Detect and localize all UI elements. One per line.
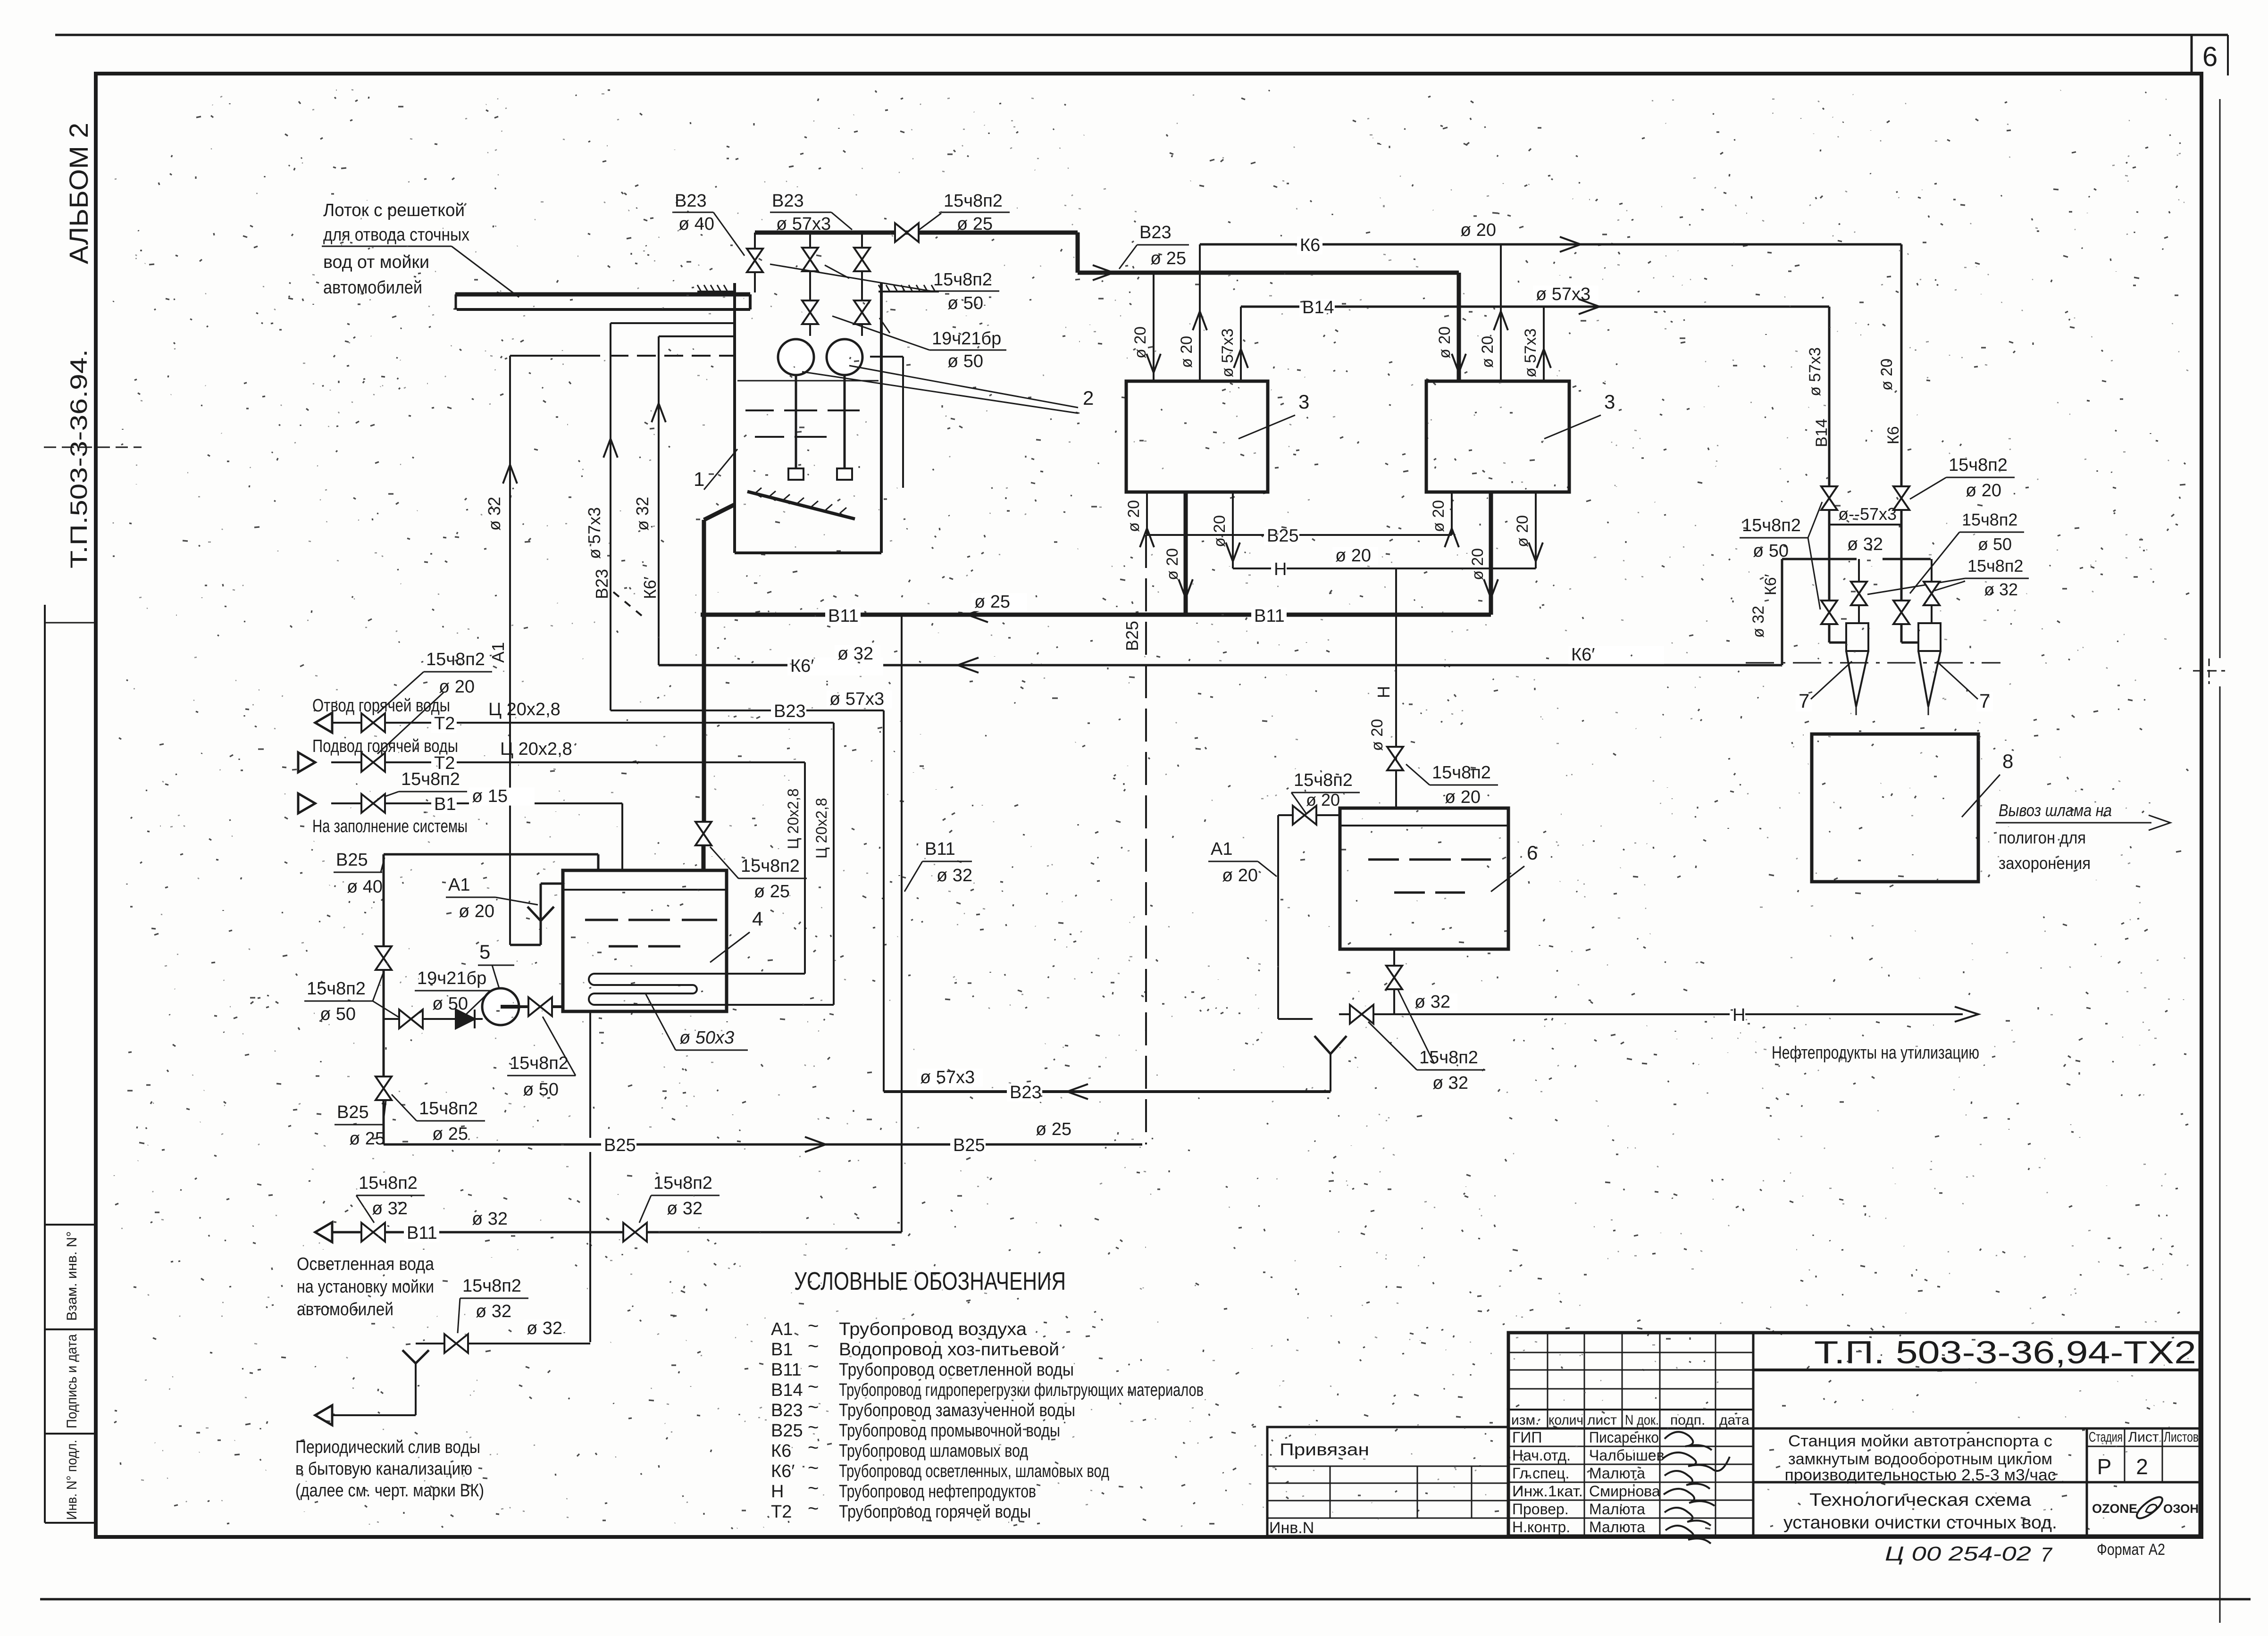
- svg-text:7: 7: [1799, 690, 1809, 712]
- svg-text:ø 32: ø 32: [837, 644, 873, 664]
- svg-text:В25: В25: [1267, 526, 1299, 546]
- svg-text:ø 50: ø 50: [1978, 534, 2012, 554]
- svg-text:Н: Н: [771, 1482, 784, 1502]
- valve on T2 return: [361, 713, 385, 732]
- svg-text:ø 25: ø 25: [1036, 1119, 1071, 1139]
- arrow K6' riser: [652, 403, 666, 422]
- label B11 bottom: [404, 1225, 439, 1243]
- svg-text:УСЛОВНЫЕ ОБОЗНАЧЕНИЯ: УСЛОВНЫЕ ОБОЗНАЧЕНИЯ: [794, 1267, 1066, 1295]
- svg-text:~: ~: [808, 1478, 819, 1499]
- svg-text:В23: В23: [1010, 1083, 1042, 1102]
- upper valve mixer left: [802, 248, 818, 271]
- svg-text:Водопровод хоз-питьевой: Водопровод хоз-питьевой: [839, 1340, 1059, 1360]
- mixer 2 right shaft: [844, 375, 846, 468]
- pipe B23 return: [884, 1090, 1331, 1093]
- check valve pump: [456, 1010, 475, 1028]
- pipe H drop to tank 6: [1395, 568, 1397, 808]
- branch right lower: [1931, 606, 1933, 623]
- svg-text:4: 4: [752, 908, 763, 930]
- svg-text:ø 32: ø 32: [372, 1199, 408, 1219]
- svg-text:Инж.1кат.: Инж.1кат.: [1512, 1483, 1583, 1500]
- svg-text:3: 3: [1604, 391, 1615, 413]
- svg-text:ø 32: ø 32: [1984, 580, 2018, 599]
- svg-text:В23: В23: [774, 701, 806, 721]
- svg-text:автомобилей: автомобилей: [323, 278, 422, 298]
- svg-text:~: ~: [808, 1316, 819, 1336]
- svg-text:К6′: К6′: [640, 576, 660, 599]
- svg-text:В11: В11: [771, 1360, 802, 1380]
- svg-text:А1: А1: [1211, 839, 1232, 859]
- svg-text:ø 25: ø 25: [432, 1124, 468, 1144]
- svg-text:Периодический слив воды: Периодический слив воды: [295, 1437, 480, 1457]
- svg-text:ø 32: ø 32: [1749, 606, 1767, 638]
- svg-text:Взам. инв. N°: Взам. инв. N°: [64, 1231, 80, 1321]
- pipe B23 vertical: [883, 710, 885, 1092]
- pipe B25 under filters: [1147, 534, 1452, 536]
- valve on B1: [361, 794, 385, 813]
- filter1 H stub: [1232, 492, 1234, 568]
- arrow on B23 trunk: [1093, 265, 1113, 280]
- pipe Ц riser supply: [804, 762, 806, 974]
- svg-text:ø 57х3: ø 57х3: [1219, 328, 1237, 377]
- label H under filters: [1271, 561, 1287, 579]
- svg-text:Ц 20х2,8: Ц 20х2,8: [500, 739, 572, 759]
- svg-text:15ч8п2: 15ч8п2: [510, 1053, 569, 1073]
- pipe K6: [1200, 243, 1901, 246]
- pipe K6' right riser: [1781, 559, 1783, 643]
- svg-text:Н: Н: [1732, 1005, 1745, 1025]
- filter1 riser K6: [1199, 244, 1201, 380]
- pipe B14 into cyclone: [1828, 625, 1831, 643]
- lower valve 19ч21бр left: [802, 300, 818, 324]
- B23 drop to filter 2: [1457, 273, 1461, 380]
- title block outline: [1508, 1333, 2200, 1536]
- svg-text:Формат А2: Формат А2: [2097, 1541, 2165, 1559]
- arrow B23 riser: [603, 439, 618, 458]
- filter1 B11 stub: [1184, 492, 1188, 615]
- label K6: [1297, 237, 1322, 255]
- filter2 B11 stub: [1489, 492, 1493, 615]
- funnel sewer: [402, 1350, 416, 1363]
- svg-text:Стадия: Стадия: [2089, 1429, 2123, 1445]
- svg-text:ø 32: ø 32: [1847, 534, 1883, 554]
- page right edge line: [2219, 99, 2221, 658]
- svg-text:6: 6: [2202, 42, 2218, 72]
- svg-text:ø 20: ø 20: [1211, 515, 1229, 547]
- svg-text:N док.: N док.: [1625, 1412, 1659, 1428]
- svg-text:Лоток с решеткой: Лоток с решеткой: [323, 200, 465, 220]
- tank 4 heating coil: [589, 974, 805, 985]
- svg-text:К6: К6: [771, 1441, 791, 1461]
- svg-text:ø 50: ø 50: [947, 351, 983, 371]
- pipe B25 drop dashed: [1145, 535, 1147, 1144]
- svg-text:Нефтепродукты на утилизацию: Нефтепродукты на утилизацию: [1772, 1043, 1979, 1063]
- label B25 bottom left: [601, 1137, 636, 1155]
- svg-text:А1: А1: [448, 875, 470, 895]
- svg-text:19ч21бр: 19ч21бр: [417, 968, 486, 988]
- left margin strip: [44, 605, 46, 1523]
- tank 4 top band: [563, 889, 727, 891]
- tank 4: [563, 870, 727, 1011]
- label d32 drain: [524, 1320, 569, 1338]
- svg-text:Ц 00 254-02: Ц 00 254-02: [1885, 1543, 2031, 1565]
- pipe B14 lower: [1828, 510, 1831, 643]
- svg-text:~: ~: [808, 1437, 819, 1458]
- pipe B1 fill: [298, 793, 315, 813]
- revision grid: [1508, 1352, 1753, 1353]
- svg-text:ø 20: ø 20: [1878, 359, 1896, 391]
- svg-text:В23: В23: [772, 191, 804, 211]
- pipe H under filters: [1233, 568, 1536, 569]
- svg-text:ø 20: ø 20: [1430, 500, 1448, 532]
- svg-text:Писаренко: Писаренко: [1589, 1429, 1659, 1446]
- pipe K6 drop: [1900, 244, 1903, 486]
- svg-text:ГИП: ГИП: [1512, 1429, 1542, 1446]
- valve K6 drop: [1893, 486, 1909, 510]
- svg-text:Т.П. 503-3-36,94-ТХ2: Т.П. 503-3-36,94-ТХ2: [1814, 1335, 2196, 1370]
- valve oil funnel: [1350, 1005, 1373, 1024]
- svg-text:Р: Р: [2097, 1454, 2112, 1479]
- svg-text:19ч21бр: 19ч21бр: [932, 329, 1001, 349]
- pipe K6' main: [659, 664, 1782, 667]
- hydrocyclone 7 left: [1846, 623, 1868, 651]
- svg-text:Т.П.503-3-36.94.: Т.П.503-3-36.94.: [66, 349, 92, 568]
- manifold branch left: [1858, 559, 1860, 581]
- sheet top border line: [55, 34, 2228, 36]
- label d57x3 on jog: [827, 691, 892, 709]
- pipe into tank 4 top: [702, 846, 706, 870]
- svg-text:ø 20: ø 20: [1445, 787, 1481, 807]
- label T2 supply: [431, 755, 457, 773]
- pipe B1 drop to tank 4: [621, 803, 623, 870]
- arrow B25 bottom: [805, 1137, 826, 1152]
- svg-text:ø 57х3: ø 57х3: [920, 1068, 975, 1087]
- valve pump discharge: [528, 997, 552, 1016]
- svg-text:дата: дата: [1719, 1412, 1749, 1428]
- svg-text:15ч8п2: 15ч8п2: [1949, 455, 2008, 475]
- svg-text:А1: А1: [488, 642, 508, 663]
- tank 6: [1340, 808, 1508, 949]
- svg-text:Гл.спец.: Гл.спец.: [1512, 1465, 1569, 1482]
- svg-text:Чалбышев: Чалбышев: [1589, 1447, 1665, 1464]
- svg-text:2: 2: [2136, 1454, 2148, 1479]
- svg-text:В14: В14: [1813, 419, 1831, 448]
- svg-text:ø 32: ø 32: [1414, 992, 1450, 1012]
- mixer 2 right motor: [827, 339, 862, 375]
- mixer 2 left shaft: [795, 375, 797, 468]
- valve B11 bottom right: [623, 1223, 647, 1242]
- svg-text:Н: Н: [1274, 559, 1287, 579]
- svg-text:15ч8п2: 15ч8п2: [462, 1276, 521, 1296]
- label d25 on B11: [971, 593, 1027, 611]
- svg-text:К6: К6: [1884, 426, 1902, 444]
- valve K6 cyclone: [1893, 601, 1909, 624]
- svg-text:Малюта: Малюта: [1589, 1519, 1645, 1536]
- svg-text:установки очистки сточных вод.: установки очистки сточных вод.: [1783, 1513, 2057, 1533]
- svg-text:Трубопровод осветленных, шламо: Трубопровод осветленных, шламовых вод: [839, 1461, 1109, 1481]
- svg-text:ø 25: ø 25: [957, 214, 993, 234]
- svg-text:ø 50: ø 50: [320, 1004, 356, 1024]
- svg-text:изм.: изм.: [1511, 1412, 1539, 1428]
- pipe A1 to tank 6: [1278, 814, 1340, 816]
- svg-text:Н: Н: [1374, 686, 1393, 698]
- fold mark left lower: [44, 622, 94, 624]
- valve 15ч8п2 feed tank 4: [695, 822, 711, 845]
- valve B14 cyclone: [1821, 601, 1837, 624]
- svg-text:Т2: Т2: [434, 714, 455, 734]
- svg-text:ø 57х3: ø 57х3: [829, 689, 884, 709]
- svg-text:ø 20: ø 20: [1306, 790, 1340, 810]
- svg-text:Привязан: Привязан: [1280, 1440, 1369, 1459]
- svg-text:ø 20: ø 20: [1178, 336, 1196, 368]
- valve on T2 supply: [361, 753, 385, 772]
- pipe tank4 drain: [589, 1011, 591, 1138]
- label d32 oil: [1412, 993, 1457, 1011]
- svg-text:В1: В1: [434, 794, 456, 814]
- binding block: [1267, 1427, 1508, 1536]
- svg-text:ОЗОН: ОЗОН: [2163, 1502, 2199, 1516]
- doc number box: [1752, 1333, 1755, 1536]
- svg-text:Малюта: Малюта: [1589, 1501, 1645, 1518]
- valve B25 riser upper: [376, 946, 392, 970]
- svg-text:Трубопровод шламовых вод: Трубопровод шламовых вод: [839, 1441, 1028, 1461]
- svg-text:ø 50: ø 50: [432, 994, 468, 1014]
- svg-text:В11: В11: [925, 839, 955, 859]
- label B14: [1299, 299, 1335, 317]
- filter1 riser B14: [1240, 307, 1242, 380]
- svg-text:15ч8п2: 15ч8п2: [401, 769, 460, 789]
- pipe T2 supply: [298, 752, 315, 772]
- svg-text:15ч8п2: 15ч8п2: [1742, 516, 1801, 535]
- svg-text:В14: В14: [771, 1380, 803, 1400]
- label d57x3 B23 return: [917, 1069, 983, 1087]
- svg-text:ø 20: ø 20: [1131, 326, 1149, 359]
- valve B14 drop: [1821, 486, 1837, 510]
- svg-text:Ц 20х2,8: Ц 20х2,8: [785, 788, 802, 849]
- svg-text:Трубопровод осветленной воды: Трубопровод осветленной воды: [839, 1360, 1074, 1380]
- svg-text:лист: лист: [1587, 1412, 1617, 1428]
- pipe B23 upper jog: [611, 709, 884, 711]
- svg-text:15ч8п2: 15ч8п2: [944, 191, 1003, 211]
- valve manifold left: [1851, 582, 1867, 605]
- label H discharge: [1730, 1007, 1745, 1025]
- svg-text:В25: В25: [771, 1421, 803, 1441]
- funnel pocket tank 4: [510, 944, 541, 946]
- arrow B23 return: [1067, 1084, 1088, 1099]
- svg-text:15ч8п2: 15ч8п2: [419, 1099, 478, 1118]
- valve oil drain: [1386, 966, 1402, 989]
- svg-text:ø 57х3: ø 57х3: [1806, 347, 1824, 396]
- cyclone axis line: [1746, 662, 2000, 664]
- svg-text:В11: В11: [1254, 606, 1285, 626]
- riser into tank left: [754, 233, 756, 292]
- ozone logo: [2134, 1494, 2166, 1522]
- svg-text:Провер.: Провер.: [1512, 1501, 1569, 1518]
- label d32 on K6': [835, 645, 880, 663]
- svg-text:ø 32: ø 32: [937, 866, 972, 885]
- label d20 on H: [1332, 547, 1378, 565]
- svg-text:ø 20: ø 20: [1966, 481, 2001, 501]
- tank 6 dashes: [1368, 859, 1399, 861]
- pipe B11 bottom: [330, 1231, 902, 1234]
- drawing name: [1753, 1481, 2087, 1484]
- ground hatch right of tank 1: [879, 291, 939, 292]
- svg-text:7: 7: [2041, 1544, 2053, 1566]
- svg-text:~: ~: [808, 1417, 819, 1438]
- svg-text:Н.контр.: Н.контр.: [1512, 1519, 1570, 1536]
- valve 15ч8п2 on header: [895, 223, 919, 242]
- svg-text:ø 20: ø 20: [1368, 719, 1386, 751]
- pipe B25 bottom: [384, 1144, 1142, 1146]
- svg-text:В14: В14: [1302, 298, 1334, 317]
- svg-text:Вывоз шлама на: Вывоз шлама на: [1999, 801, 2112, 820]
- pipe K6' riser: [658, 336, 660, 665]
- svg-text:ø 32: ø 32: [472, 1209, 508, 1229]
- pipe A1 riser: [509, 356, 511, 945]
- svg-text:Подпись и дата: Подпись и дата: [64, 1334, 80, 1428]
- pipe cross d57x3: [1829, 524, 1901, 526]
- svg-text:ø 50: ø 50: [947, 293, 983, 313]
- svg-text:В25: В25: [337, 1102, 369, 1122]
- filter1 inlet B23: [1153, 273, 1155, 380]
- pipe B14: [1241, 306, 1829, 308]
- svg-text:ø 20: ø 20: [1436, 326, 1454, 359]
- note leader: [322, 246, 452, 247]
- riser to mixer right: [861, 233, 863, 336]
- svg-text:К6′: К6′: [790, 656, 814, 676]
- header drop: [1076, 233, 1080, 273]
- label K6' main: [787, 658, 883, 676]
- svg-text:Трубопровод горячей воды: Трубопровод горячей воды: [839, 1502, 1031, 1522]
- svg-text:15ч8п2: 15ч8п2: [1294, 770, 1353, 790]
- svg-text:Трубопровод гидроперегрузки фи: Трубопровод гидроперегрузки фильтрующих …: [839, 1380, 1204, 1400]
- svg-text:ø 20: ø 20: [439, 677, 475, 697]
- svg-text:Инв.N: Инв.N: [1269, 1519, 1314, 1537]
- pipe B11 main: [701, 613, 1491, 617]
- svg-text:15ч8п2: 15ч8п2: [1967, 556, 2023, 576]
- filter2 riser B14: [1543, 307, 1545, 380]
- funnel Y tank 4: [527, 907, 541, 921]
- trough with grate: [455, 292, 750, 297]
- svg-text:Листов: Листов: [2164, 1429, 2199, 1445]
- label B23 return: [1007, 1084, 1042, 1102]
- svg-text:15ч8п2: 15ч8п2: [653, 1173, 712, 1193]
- svg-text:15ч8п2: 15ч8п2: [1962, 510, 2017, 529]
- B23 riser dots: [613, 592, 642, 616]
- svg-text:на установку мойки: на установку мойки: [297, 1277, 434, 1297]
- filter 3 left: [1126, 381, 1268, 492]
- svg-text:В23: В23: [592, 569, 611, 599]
- svg-text:Ц 20х2,8: Ц 20х2,8: [488, 700, 561, 719]
- svg-text:15ч8п2: 15ч8п2: [933, 270, 992, 290]
- svg-text:15ч8п2: 15ч8п2: [741, 856, 800, 876]
- svg-text:В23: В23: [1139, 223, 1172, 242]
- svg-text:полигон для: полигон для: [1999, 828, 2086, 847]
- tank 6 top band: [1340, 825, 1508, 826]
- valve manifold right: [1924, 582, 1940, 605]
- pipe oil drain: [1393, 949, 1395, 1014]
- tank 1 water dashes: [745, 409, 774, 411]
- valve A1 tank6: [1293, 806, 1316, 825]
- svg-text:Смирнова: Смирнова: [1589, 1483, 1660, 1500]
- svg-text:замкнутым водооборотным циклом: замкнутым водооборотным циклом: [1788, 1450, 2052, 1468]
- pipe K6' to riser: [1781, 643, 1783, 665]
- pipe drain horizontal: [416, 1343, 590, 1344]
- svg-text:Лист: Лист: [2128, 1429, 2159, 1445]
- svg-text:Трубопровод нефтепродуктов: Трубопровод нефтепродуктов: [839, 1482, 1036, 1502]
- svg-text:ø 32: ø 32: [527, 1319, 562, 1338]
- svg-text:ø 25: ø 25: [349, 1129, 385, 1149]
- svg-text:(далее см. черт. марки ВК): (далее см. черт. марки ВК): [295, 1481, 484, 1501]
- svg-text:В23: В23: [675, 191, 707, 211]
- valve pump suction: [399, 1010, 423, 1028]
- svg-text:ø 20: ø 20: [1469, 548, 1487, 580]
- svg-text:ø 57х3: ø 57х3: [1522, 328, 1540, 377]
- svg-text:5: 5: [479, 941, 490, 963]
- svg-text:15ч8п2: 15ч8п2: [426, 650, 485, 669]
- container 8: [1812, 734, 1978, 882]
- svg-text:ø 32: ø 32: [476, 1302, 511, 1321]
- svg-text:К6′: К6′: [1762, 574, 1780, 595]
- svg-text:АЛЬБОМ 2: АЛЬБОМ 2: [64, 123, 93, 264]
- svg-text:6: 6: [1527, 842, 1538, 864]
- pipe B23 trunk: [1078, 271, 1459, 275]
- svg-text:Осветленная вода: Осветленная вода: [297, 1254, 435, 1274]
- svg-text:15ч8п2: 15ч8п2: [307, 979, 366, 999]
- svg-text:8: 8: [2002, 750, 2013, 772]
- pipe K6 into cyclone: [1900, 625, 1903, 643]
- svg-text:~: ~: [808, 1458, 819, 1478]
- fold mark right: [2193, 670, 2225, 672]
- page bottom edge line: [40, 1598, 2251, 1601]
- svg-text:ø 20: ø 20: [459, 901, 494, 921]
- svg-text:15ч8п2: 15ч8п2: [1432, 763, 1491, 783]
- label B11 main: [825, 608, 861, 626]
- svg-text:Станция мойки автотранспорта с: Станция мойки автотранспорта с: [1788, 1432, 2052, 1450]
- svg-text:Т2: Т2: [771, 1502, 792, 1522]
- svg-text:ø 32: ø 32: [1432, 1073, 1468, 1093]
- svg-text:ø 50х3: ø 50х3: [679, 1028, 734, 1048]
- valve 15ч8п2 on H drop: [1387, 747, 1403, 770]
- label 7 left: [1796, 692, 1812, 711]
- svg-text:ø 20: ø 20: [1479, 336, 1497, 368]
- pipe B25 riser top: [383, 854, 385, 1144]
- svg-text:В25: В25: [336, 850, 368, 870]
- svg-text:ø 57х3: ø 57х3: [776, 214, 831, 234]
- pump 5 circle: [482, 988, 519, 1025]
- svg-text:ø 32: ø 32: [485, 497, 504, 531]
- filter1 B25 stub: [1146, 492, 1148, 535]
- svg-text:В23: В23: [771, 1401, 803, 1420]
- svg-text:автомобилей: автомобилей: [297, 1300, 393, 1319]
- svg-text:Трубопровод воздуха: Трубопровод воздуха: [839, 1319, 1027, 1339]
- pipe B11 branch down: [901, 615, 903, 1127]
- svg-text:В11: В11: [407, 1223, 437, 1243]
- fold mark left upper: [44, 447, 142, 448]
- lower valve 19ч21бр right: [854, 300, 870, 324]
- svg-text:ø 32: ø 32: [633, 497, 652, 531]
- arrow A1 riser: [503, 465, 517, 484]
- svg-text:На заполнение системы: На заполнение системы: [312, 817, 468, 836]
- label B25 bottom right: [950, 1137, 986, 1155]
- svg-text:~: ~: [808, 1397, 819, 1418]
- pipe pump discharge: [519, 1005, 563, 1008]
- manifold branch right: [1931, 559, 1933, 581]
- tank 1 walls: [733, 283, 736, 553]
- signatures: [1663, 1432, 1730, 1544]
- svg-text:1: 1: [694, 468, 704, 490]
- pipe Ц riser return: [833, 723, 835, 1005]
